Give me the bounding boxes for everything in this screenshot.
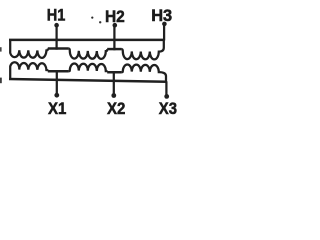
- svg-text:X2: X2: [107, 99, 125, 118]
- wire: primary junction J2 (H2 tap segment): [107, 48, 121, 51]
- node X2 terminal dot: [111, 93, 116, 98]
- winding S2 (X-side coil 2): [69, 64, 108, 73]
- svg-text:H3: H3: [151, 6, 172, 25]
- node H1 terminal dot: [54, 23, 59, 28]
- svg-text:H1: H1: [47, 5, 66, 24]
- winding P1 (H-side coil 1): [10, 40, 48, 58]
- winding S3 (X-side coil 3): [122, 65, 166, 82]
- wire: secondary junction K2 (X2 tap segment): [107, 71, 121, 74]
- wire: primary junction J1 (H1 tap segment): [48, 47, 69, 50]
- node H3 terminal dot: [162, 22, 167, 27]
- node H2 terminal dot: [113, 23, 118, 28]
- winding P3 (H-side coil 3): [122, 40, 164, 59]
- wire: secondary junction K1 (X1 tap segment): [48, 70, 69, 73]
- wire: X2 terminal lead: [113, 71, 115, 94]
- wire: primary delta bus (top): [9, 39, 164, 42]
- node X1 terminal dot: [54, 93, 59, 98]
- wire: secondary delta bus (bottom): [9, 79, 166, 82]
- wire: X1 terminal lead: [56, 70, 58, 94]
- wire: H1 terminal lead: [55, 26, 57, 50]
- svg-text:X3: X3: [159, 99, 177, 118]
- wire: H3 terminal lead: [163, 25, 165, 41]
- winding S1 (X-side coil 1): [10, 62, 48, 79]
- svg-text:H2: H2: [105, 7, 125, 26]
- winding P2 (H-side coil 2): [69, 48, 108, 58]
- wire: H2 terminal lead: [113, 26, 115, 50]
- wire: X3 terminal lead: [165, 81, 167, 95]
- node X3 terminal dot: [164, 94, 169, 99]
- svg-text:X1: X1: [48, 99, 66, 118]
